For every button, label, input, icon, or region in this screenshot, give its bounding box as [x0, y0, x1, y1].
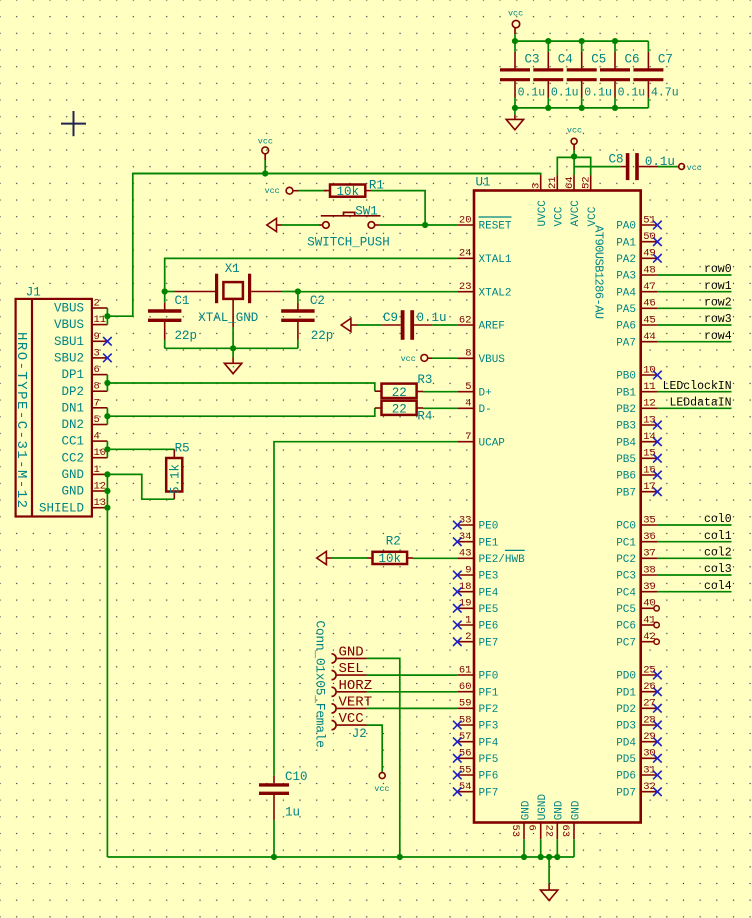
svg-text:XTAL1: XTAL1 [479, 254, 512, 266]
junction [397, 854, 403, 860]
svg-text:PE6: PE6 [479, 621, 499, 633]
svg-text:55: 55 [459, 764, 472, 776]
svg-text:PF1: PF1 [479, 687, 499, 699]
svg-text:PD2: PD2 [616, 704, 636, 716]
pin 39 PC4 (U1 right) [641, 591, 658, 593]
pin 61 PF0 (U1 left) [457, 674, 474, 676]
wire crystal ground rail [165, 347, 298, 349]
pin VERT (J2) [332, 704, 337, 713]
svg-text:AVCC: AVCC [570, 200, 582, 227]
wire X1 to junction right [282, 291, 298, 293]
svg-text:row4: row4 [704, 330, 732, 343]
svg-text:C1: C1 [175, 294, 190, 308]
svg-text:48: 48 [643, 264, 656, 276]
svg-text:C6: C6 [625, 53, 640, 67]
pin 47 PA4 (U1 right) [641, 291, 658, 293]
pin 58 PF3 (U1 left) [457, 724, 474, 726]
ground (below bank) [514, 108, 516, 115]
resistor R3 [375, 390, 382, 392]
wire bottom rail of capacitor bank [515, 107, 649, 109]
junction [545, 38, 551, 44]
svg-text:44: 44 [643, 331, 656, 343]
svg-text:PB5: PB5 [616, 454, 636, 466]
svg-text:20: 20 [459, 214, 472, 226]
pin 1 GND (J1) [92, 473, 108, 475]
svg-text:0.1u: 0.1u [584, 86, 612, 99]
pin 4 D- (U1 left) [457, 407, 474, 409]
svg-text:2: 2 [94, 298, 100, 310]
wire vcc stem to rail [514, 34, 516, 41]
resistor R2 [367, 557, 373, 559]
wire R5 to GND pin 1 [107, 474, 174, 499]
wire net col1 [657, 541, 731, 543]
svg-text:UCAP: UCAP [479, 437, 506, 449]
wire tie DP pins [106, 375, 108, 392]
pin 15 PB5 (U1 right) [641, 457, 658, 459]
capacitor C10 [273, 776, 275, 783]
pin 6 DP1 (J1) [92, 374, 108, 376]
ground (below X1) [232, 348, 234, 357]
svg-text:LEDclockIN: LEDclockIN [663, 380, 732, 393]
svg-text:LEDdataIN: LEDdataIN [669, 397, 731, 410]
svg-text:12: 12 [94, 481, 107, 493]
pin 3 UVCC (U1 top) [540, 175, 542, 190]
junction [571, 153, 577, 159]
wire DP to R3 [107, 383, 374, 391]
svg-text:row0: row0 [704, 263, 732, 276]
wire arrow to C9 [357, 324, 382, 326]
svg-text:6: 6 [526, 825, 538, 831]
pin 31 PD6 (U1 right) [641, 774, 658, 776]
wire top rail of capacitor bank [515, 40, 649, 42]
svg-text:GND: GND [61, 468, 84, 482]
svg-text:PF5: PF5 [479, 754, 499, 766]
svg-text:vcc: vcc [258, 136, 273, 146]
pin 7 DN1 (J1) [92, 407, 108, 409]
svg-text:vcc: vcc [264, 186, 279, 196]
svg-text:16: 16 [643, 464, 656, 476]
svg-text:PC4: PC4 [616, 587, 636, 599]
pin 62 AREF (U1 left) [457, 324, 474, 326]
pin 41 PC6 (U1 right) [641, 624, 654, 626]
pin 59 PF2 (U1 left) [457, 707, 474, 709]
svg-text:DN2: DN2 [61, 418, 84, 432]
capacitor C7 [647, 41, 649, 52]
svg-text:vcc: vcc [567, 126, 582, 136]
capacitor C4 [547, 41, 549, 52]
svg-text:5.1k: 5.1k [169, 464, 183, 494]
svg-text:19: 19 [459, 598, 472, 610]
svg-text:10: 10 [94, 447, 107, 459]
pin 2 VBUS (J1) [92, 307, 108, 309]
svg-text:PF4: PF4 [479, 737, 499, 749]
svg-text:58: 58 [459, 714, 472, 726]
svg-text:PC7: PC7 [616, 637, 636, 649]
pin 13 PB3 (U1 right) [641, 424, 658, 426]
pin 38 PC3 (U1 right) [641, 574, 658, 576]
wire C10 to ground rail [273, 820, 275, 857]
svg-text:col0: col0 [704, 513, 732, 526]
svg-text:PC3: PC3 [616, 571, 636, 583]
wire SEL to pin 61 PF0 [367, 674, 458, 676]
pin 9 SBU1 (J1) [92, 340, 108, 342]
svg-text:VBUS: VBUS [54, 302, 84, 316]
junction [271, 854, 277, 860]
pin 25 PD0 (U1 right) [641, 674, 658, 676]
svg-text:21: 21 [547, 176, 559, 189]
svg-text:10k: 10k [379, 552, 402, 566]
wire SW1 to junction [379, 224, 425, 226]
pin 19 PE5 (U1 left) [457, 607, 474, 609]
capacitor C8 [620, 166, 626, 168]
svg-text:24: 24 [459, 248, 472, 260]
wire arrow to R2 [331, 557, 367, 559]
pin 35 PC0 (U1 right) [641, 524, 658, 526]
svg-text:DP1: DP1 [61, 368, 84, 382]
pin 43 PE2/HWB (U1 left) [457, 557, 474, 559]
wire VBUS to vcc rail [107, 315, 132, 317]
svg-text:C9: C9 [383, 311, 398, 325]
svg-text:5: 5 [94, 414, 100, 426]
svg-text:3: 3 [94, 347, 100, 359]
pin 55 PF6 (U1 left) [457, 774, 474, 776]
pin 11 PB1 (U1 right) [641, 391, 658, 393]
svg-text:VCC: VCC [339, 711, 364, 727]
crystal X1 [165, 291, 175, 293]
svg-text:PB2: PB2 [616, 404, 636, 416]
pin 23 XTAL2 (U1 left) [457, 291, 474, 293]
svg-text:PF7: PF7 [479, 787, 499, 799]
wire CC to R5 [107, 448, 174, 450]
svg-text:SWITCH_PUSH: SWITCH_PUSH [307, 236, 390, 250]
wire net row4 [657, 341, 731, 343]
svg-text:11: 11 [94, 314, 107, 326]
svg-text:AT90USB1286-AU: AT90USB1286-AU [592, 225, 606, 319]
pin 49 PA2 (U1 right) [641, 257, 658, 259]
wire VERT to pin 59 PF2 [367, 707, 458, 709]
svg-text:34: 34 [459, 531, 472, 543]
svg-text:13: 13 [94, 497, 107, 509]
svg-text:11: 11 [643, 381, 656, 393]
pin 42 PC7 (U1 right) [641, 641, 654, 643]
svg-text:1: 1 [94, 464, 100, 476]
svg-text:PA1: PA1 [616, 237, 636, 249]
svg-text:XTAL2: XTAL2 [479, 287, 512, 299]
junction [262, 170, 268, 176]
pin 63 GND (U1 bottom) [573, 823, 575, 840]
svg-text:43: 43 [459, 548, 472, 560]
svg-text:45: 45 [643, 314, 656, 326]
svg-text:PF6: PF6 [479, 771, 499, 783]
pin 56 PF5 (U1 left) [457, 757, 474, 759]
pin 51 PA0 (U1 right) [641, 224, 658, 226]
svg-text:PE0: PE0 [479, 521, 499, 533]
pin 2 PE7 (U1 left) [457, 641, 474, 643]
svg-text:0.1u: 0.1u [417, 311, 447, 325]
wire vcc rail to pin3 of U1 [265, 173, 541, 175]
wire net col4 [657, 591, 731, 593]
svg-text:SBU2: SBU2 [54, 352, 84, 366]
pin 33 PE0 (U1 left) [457, 524, 474, 526]
pin 8 DP2 (J1) [92, 390, 108, 392]
svg-text:2: 2 [465, 631, 471, 643]
pin 13 SHIELD (J1) [92, 507, 108, 509]
svg-text:51: 51 [643, 214, 656, 226]
pin 54 PF7 (U1 left) [457, 791, 474, 793]
pin 11 VBUS (J1) [92, 324, 108, 326]
resistor R1 [324, 190, 330, 192]
pin 20 RESET (U1 left) [457, 224, 474, 226]
pin 14 PB4 (U1 right) [641, 441, 658, 443]
svg-text:PB0: PB0 [616, 371, 636, 383]
capacitor C2 [297, 292, 299, 303]
wire C9 to pin 62 AREF [432, 324, 457, 326]
svg-text:GND: GND [554, 800, 566, 820]
wire pin 23 XTAL2 [298, 291, 457, 293]
svg-text:SEL: SEL [339, 661, 364, 677]
svg-text:SW1: SW1 [355, 204, 378, 218]
pin 5 D+ (U1 left) [457, 391, 474, 393]
wire U1 GND pins to rail [523, 839, 525, 857]
ground (below U1) [548, 857, 550, 884]
svg-text:33: 33 [459, 514, 472, 526]
svg-text:PB3: PB3 [616, 421, 636, 433]
wire net col3 [657, 574, 731, 576]
svg-text:PD5: PD5 [616, 754, 636, 766]
svg-text:PC5: PC5 [616, 604, 636, 616]
junction [230, 345, 236, 351]
junction [162, 288, 168, 294]
svg-text:UVCC: UVCC [537, 200, 549, 227]
svg-text:47: 47 [643, 281, 656, 293]
pin HORZ (J2) [332, 687, 337, 696]
pin 16 PB6 (U1 right) [641, 474, 658, 476]
svg-text:50: 50 [643, 231, 656, 243]
svg-text:D-: D- [479, 404, 492, 416]
wire net LEDdataIN [657, 407, 731, 409]
svg-text:17: 17 [643, 481, 656, 493]
svg-text:PE2/HWB: PE2/HWB [479, 554, 526, 566]
pin 40 PC5 (U1 right) [641, 607, 654, 609]
pin 53 GND (U1 bottom) [523, 823, 525, 840]
svg-text:X1: X1 [225, 262, 240, 276]
junction [612, 38, 618, 44]
wire net row1 [657, 291, 731, 293]
svg-text:39: 39 [643, 581, 656, 593]
svg-text:HRO-TYPE-C-31-M-12: HRO-TYPE-C-31-M-12 [13, 332, 29, 508]
svg-text:6: 6 [94, 364, 100, 376]
svg-text:vcc: vcc [401, 354, 416, 364]
pin 10 PB0 (U1 right) [641, 374, 658, 376]
junction [512, 38, 518, 44]
svg-text:1u: 1u [285, 805, 300, 819]
svg-text:C7: C7 [658, 53, 673, 67]
svg-text:0.1u: 0.1u [551, 86, 579, 99]
svg-text:VCC: VCC [554, 206, 566, 226]
junction [579, 38, 585, 44]
svg-text:GND: GND [61, 485, 84, 499]
svg-text:DP2: DP2 [61, 385, 84, 399]
svg-text:PA0: PA0 [616, 221, 636, 233]
wire R1 to RESET net [371, 191, 425, 225]
wire vcc rail [264, 160, 266, 174]
pin 18 PE4 (U1 left) [457, 591, 474, 593]
svg-text:26: 26 [643, 681, 656, 693]
svg-text:9: 9 [94, 331, 100, 343]
wire DN to R4 [107, 408, 374, 416]
wire J2 GND down [367, 658, 400, 857]
svg-text:AREF: AREF [479, 321, 505, 333]
wire to C8 [574, 166, 620, 168]
svg-text:PA3: PA3 [616, 271, 636, 283]
svg-text:PD0: PD0 [616, 671, 636, 683]
pin 9 PE3 (U1 left) [457, 574, 474, 576]
svg-text:13: 13 [643, 414, 656, 426]
pin 17 PB7 (U1 right) [641, 491, 658, 493]
wire tie DN pins [106, 408, 108, 425]
svg-text:15: 15 [643, 448, 656, 460]
svg-text:7: 7 [465, 431, 471, 443]
pin 10 CC2 (J1) [92, 457, 108, 459]
svg-text:PB4: PB4 [616, 437, 636, 449]
wire pin 7 UCAP to C10 [274, 442, 457, 776]
svg-text:VBUS: VBUS [479, 354, 506, 366]
svg-text:J1: J1 [26, 286, 41, 300]
svg-text:PE5: PE5 [479, 604, 499, 616]
svg-text:38: 38 [643, 564, 656, 576]
capacitor C6 [614, 41, 616, 52]
junction [104, 471, 110, 477]
svg-text:10k: 10k [336, 185, 359, 199]
svg-text:3: 3 [531, 183, 543, 189]
svg-text:col2: col2 [704, 547, 732, 560]
junction [104, 380, 110, 386]
pin 64 AVCC (U1 top) [573, 175, 575, 190]
wire bottom ground rail [107, 856, 574, 858]
wire tie VBUS pins [106, 308, 108, 325]
pin 48 PA3 (U1 right) [641, 274, 658, 276]
connector J1 HRO-TYPE-C-31-M-12 body [16, 299, 92, 517]
svg-text:60: 60 [459, 681, 472, 693]
svg-text:22: 22 [542, 825, 554, 838]
junction [104, 313, 110, 319]
svg-text:XTAL_GND: XTAL_GND [198, 311, 258, 325]
svg-text:4.7u: 4.7u [651, 86, 679, 99]
wire vcc to U1 power pins [573, 150, 575, 157]
svg-text:52: 52 [581, 176, 593, 189]
svg-text:GND: GND [520, 800, 532, 820]
svg-text:R2: R2 [386, 535, 401, 549]
svg-text:vcc: vcc [374, 784, 389, 794]
wire VBUS to pin 3 [133, 174, 541, 317]
svg-text:C8: C8 [609, 153, 624, 167]
svg-text:PF3: PF3 [479, 721, 499, 733]
wire vcc to pin 8 VBUS [432, 357, 457, 359]
junction [295, 288, 301, 294]
svg-text:UGND: UGND [537, 793, 549, 820]
svg-text:64: 64 [564, 176, 576, 189]
svg-text:25: 25 [643, 664, 656, 676]
svg-text:49: 49 [643, 248, 656, 260]
pin 22 GND (U1 bottom) [556, 823, 558, 840]
svg-text:PE3: PE3 [479, 571, 499, 583]
junction [422, 222, 428, 228]
pin SEL (J2) [332, 671, 337, 680]
svg-text:GND: GND [570, 800, 582, 820]
svg-text:C10: C10 [285, 770, 308, 784]
pin 1 PE6 (U1 left) [457, 624, 474, 626]
svg-text:10: 10 [643, 364, 656, 376]
pin 26 PD1 (U1 right) [641, 691, 658, 693]
svg-text:4: 4 [465, 398, 471, 410]
pin 29 PD4 (U1 right) [641, 741, 658, 743]
pin 50 PA1 (U1 right) [641, 241, 658, 243]
svg-text:22p: 22p [175, 329, 198, 343]
svg-text:GND: GND [339, 645, 364, 661]
pin 3 SBU2 (J1) [92, 357, 108, 359]
svg-text:CC2: CC2 [61, 451, 84, 465]
svg-text:PB6: PB6 [616, 471, 636, 483]
svg-text:CC1: CC1 [61, 435, 84, 449]
pin 24 XTAL1 (U1 left) [457, 257, 474, 259]
svg-text:32: 32 [643, 781, 656, 793]
pin 7 UCAP (U1 left) [457, 441, 474, 443]
svg-text:PD3: PD3 [616, 721, 636, 733]
svg-text:PC2: PC2 [616, 554, 636, 566]
svg-text:61: 61 [459, 664, 472, 676]
capacitor C1 [164, 292, 166, 303]
svg-text:col1: col1 [704, 530, 732, 543]
svg-text:C3: C3 [525, 53, 540, 67]
wire arrow to SW1 [282, 224, 319, 226]
svg-text:PE7: PE7 [479, 637, 499, 649]
svg-text:53: 53 [509, 825, 521, 838]
input arrow (AREF) [341, 318, 351, 331]
wire net row0 [657, 274, 731, 276]
svg-text:PA5: PA5 [616, 304, 636, 316]
wire net row3 [657, 324, 731, 326]
svg-text:col4: col4 [704, 580, 732, 593]
svg-text:PA7: PA7 [616, 337, 636, 349]
pin 46 PA5 (U1 right) [641, 307, 658, 309]
svg-text:63: 63 [559, 825, 571, 838]
svg-text:29: 29 [643, 731, 656, 743]
pin 36 PC1 (U1 right) [641, 541, 658, 543]
svg-text:col3: col3 [704, 563, 732, 576]
resistor R4 [375, 407, 382, 409]
input arrow (SW1 left) [267, 218, 277, 231]
svg-text:PA6: PA6 [616, 321, 636, 333]
svg-text:PF2: PF2 [479, 704, 499, 716]
svg-text:22: 22 [392, 403, 407, 417]
svg-text:22p: 22p [311, 329, 334, 343]
svg-text:14: 14 [643, 431, 656, 443]
pin 30 PD5 (U1 right) [641, 757, 658, 759]
switch SW1 SWITCH_PUSH [319, 224, 323, 226]
pin 12 GND (J1) [92, 490, 108, 492]
svg-text:7: 7 [94, 397, 100, 409]
power flag vcc (J2) [379, 773, 385, 779]
svg-text:vcc: vcc [508, 9, 523, 19]
pin 44 PA7 (U1 right) [641, 341, 658, 343]
wire HORZ to pin 60 PF1 [367, 691, 458, 693]
wire R4 to pin 4 D- [423, 407, 457, 409]
wire net col0 [657, 524, 731, 526]
svg-text:C4: C4 [558, 53, 573, 67]
svg-text:PA2: PA2 [616, 254, 636, 266]
svg-text:VBUS: VBUS [54, 318, 84, 332]
capacitor C5 [581, 41, 583, 52]
